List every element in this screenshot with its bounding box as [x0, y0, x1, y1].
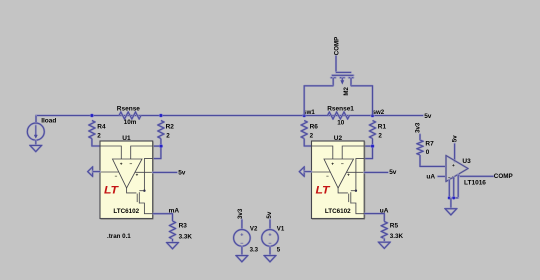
svg-text:LT: LT — [316, 185, 331, 197]
node sw1 junction — [302, 109, 315, 117]
U2 +IN pin path — [312, 146, 333, 159]
transistor M2 — [331, 72, 354, 95]
svg-text:+: + — [240, 233, 243, 239]
svg-text:+: + — [452, 164, 455, 169]
wire U3 to ground — [449, 198, 453, 209]
node label 5v main bus end — [424, 113, 432, 120]
svg-text:2: 2 — [97, 133, 101, 140]
svg-text:uA: uA — [380, 207, 389, 214]
wire Iload to ground — [34, 140, 38, 145]
wire R3 to ground — [170, 239, 174, 243]
node label 3v3 at V2 — [237, 208, 244, 219]
U1 V- left pin — [100, 172, 119, 179]
wire 3v3 to R7 — [418, 134, 422, 140]
svg-text:10: 10 — [337, 119, 345, 126]
node junction U1 -IN — [159, 144, 163, 148]
U2 amplifier triangle — [324, 159, 354, 188]
wire R6 to U2 +IN — [304, 139, 311, 147]
node junction U3 LE — [452, 196, 456, 200]
wire R5 to ground — [382, 239, 386, 243]
svg-text:R4: R4 — [97, 124, 106, 131]
wire R7 to U3 +IN — [420, 155, 446, 166]
op-amp U1 LTC6102 body — [100, 141, 153, 219]
ground U3 — [445, 209, 457, 215]
svg-text:uA: uA — [426, 173, 435, 180]
wire R2 to U1 -IN and V+ — [153, 139, 161, 159]
node label 5v at U3 supply — [452, 135, 459, 142]
wire U1 OUT to mA node — [153, 214, 173, 221]
svg-text:M2: M2 — [343, 86, 350, 95]
resistor R2 — [158, 121, 174, 140]
node label uA at U3 input — [426, 173, 435, 180]
U2 V- left pin — [312, 172, 331, 179]
resistor R3 — [170, 221, 193, 241]
comparator U3 LT1016 — [446, 156, 486, 187]
node COMP label at M2 gate — [333, 37, 340, 55]
wire U3 output to COMP — [460, 174, 494, 178]
op-amp U1 designator — [122, 135, 131, 142]
U2 V+ pin rail — [355, 159, 365, 192]
node label 3v3 at R7 — [415, 122, 422, 133]
resistor Rsense — [117, 105, 141, 126]
node label mA — [169, 207, 180, 214]
U1 V+ pin rail — [143, 159, 153, 192]
resistor R7 — [417, 140, 434, 156]
voltage source V1 — [262, 226, 285, 254]
ground U2 V- (rotated left) — [299, 167, 311, 176]
svg-text:LT: LT — [104, 185, 119, 197]
op-amp U2 designator — [334, 135, 343, 142]
svg-text:0: 0 — [426, 149, 430, 156]
node junction U2 -IN — [370, 144, 374, 148]
svg-text:+: + — [120, 163, 123, 168]
wire COMP to M2 gate — [334, 56, 338, 73]
wire U2 OUT to uA node — [364, 214, 384, 222]
node label 5v at V1 — [266, 211, 273, 218]
ground Iload — [30, 145, 42, 151]
svg-text:2: 2 — [166, 133, 170, 140]
resistor R1 — [370, 121, 387, 140]
svg-text:R1: R1 — [378, 124, 387, 131]
svg-text:10m: 10m — [124, 119, 137, 126]
svg-text:5v: 5v — [452, 135, 459, 142]
directive .tran — [107, 233, 131, 240]
U2 LTC6102 label — [325, 208, 351, 215]
U1 LTC6102 label — [113, 208, 139, 215]
wire R1 to U2 -IN and V+ — [364, 139, 372, 159]
svg-text:−: − — [326, 174, 329, 179]
svg-text:LT1016: LT1016 — [464, 180, 486, 187]
svg-text:LTC6102: LTC6102 — [325, 208, 351, 215]
wire U2 right pin to 5v — [364, 170, 388, 174]
node label 5v at U2 — [389, 169, 397, 176]
current source Iload — [27, 116, 56, 141]
svg-text:−: − — [115, 174, 118, 179]
resistor Rsense1 — [327, 105, 354, 126]
wire 5v to V1 — [268, 220, 272, 230]
resistor R4 — [89, 121, 106, 140]
U1 internal output FET — [127, 188, 153, 214]
svg-text:3.3K: 3.3K — [179, 234, 193, 241]
svg-text:5v: 5v — [389, 169, 397, 176]
svg-text:3v3: 3v3 — [415, 122, 422, 133]
svg-text:+: + — [347, 172, 350, 177]
svg-text:R3: R3 — [179, 223, 188, 230]
wire R4 to U1 +IN — [92, 139, 100, 147]
wire main bus — [36, 113, 423, 117]
svg-text:LTC6102: LTC6102 — [113, 208, 139, 215]
node sw2 junction — [370, 109, 384, 117]
svg-text:+: + — [136, 172, 139, 177]
svg-text:V2: V2 — [250, 226, 258, 233]
svg-text:mA: mA — [169, 207, 180, 214]
svg-text:+: + — [268, 233, 271, 239]
svg-text:R2: R2 — [166, 124, 175, 131]
U2 LT logo — [316, 185, 331, 197]
node label 5v at U1 — [178, 170, 186, 177]
svg-text:sw2: sw2 — [373, 109, 385, 116]
svg-text:R5: R5 — [390, 223, 399, 230]
svg-text:2: 2 — [378, 133, 382, 140]
svg-text:3.3K: 3.3K — [390, 233, 404, 240]
voltage source V2 — [234, 226, 259, 254]
U2 -IN pin path — [342, 146, 364, 159]
node junction Rsense left — [90, 113, 94, 117]
svg-text:3.3: 3.3 — [250, 247, 259, 254]
svg-text:Rsense: Rsense — [117, 105, 141, 112]
node label uA at U2 — [380, 207, 389, 214]
svg-text:COMP: COMP — [333, 37, 340, 55]
svg-text:3v3: 3v3 — [237, 208, 244, 219]
resistor R6 — [301, 121, 318, 140]
ground V2 — [236, 256, 248, 262]
op-amp U2 LTC6102 body — [312, 141, 365, 219]
node junction U3 V- — [447, 196, 451, 200]
svg-text:R7: R7 — [425, 140, 434, 147]
svg-text:5v: 5v — [178, 170, 186, 177]
U2 internal output FET — [338, 188, 364, 214]
wire U1 right pin to 5v — [153, 170, 177, 174]
svg-text:−: − — [341, 163, 344, 168]
svg-text:2: 2 — [310, 133, 314, 140]
wire M2 drain to sw1 — [304, 86, 333, 116]
wire 3v3 to V2 — [240, 220, 244, 230]
U2 OUT+ right pin — [346, 172, 364, 177]
svg-text:U3: U3 — [462, 158, 471, 165]
svg-text:−: − — [129, 163, 132, 168]
ground R3 — [167, 243, 179, 249]
svg-text:5v: 5v — [266, 211, 273, 218]
wire V2 to ground — [240, 246, 244, 255]
wire V1 to ground — [268, 246, 272, 255]
U1 amplifier triangle — [113, 159, 143, 188]
U1 +IN pin path — [100, 146, 121, 159]
wire 5v to U3 V+ — [452, 144, 456, 162]
wire U3 bottom pins — [449, 175, 458, 198]
U1 -IN pin path — [131, 146, 153, 159]
svg-text:COMP: COMP — [494, 173, 513, 180]
svg-text:.tran 0.1: .tran 0.1 — [107, 233, 131, 240]
svg-text:5v: 5v — [424, 113, 432, 120]
resistor R5 — [381, 222, 403, 241]
wire uA to U3 -IN — [438, 174, 446, 178]
svg-text:R6: R6 — [310, 124, 319, 131]
ground U1 V- (rotated left) — [88, 167, 100, 176]
U1 OUT+ right pin — [135, 172, 153, 177]
ground V1 — [264, 256, 276, 262]
svg-text:Iload: Iload — [41, 118, 56, 125]
svg-text:Rsense1: Rsense1 — [327, 105, 354, 112]
U1 LT logo — [104, 185, 119, 197]
svg-text:V1: V1 — [277, 226, 285, 233]
wire M2 source to sw2 — [351, 86, 373, 116]
node junction Rsense right — [159, 113, 163, 117]
ground R5 — [379, 242, 391, 248]
node label COMP output — [494, 173, 513, 180]
svg-text:+: + — [331, 163, 334, 168]
